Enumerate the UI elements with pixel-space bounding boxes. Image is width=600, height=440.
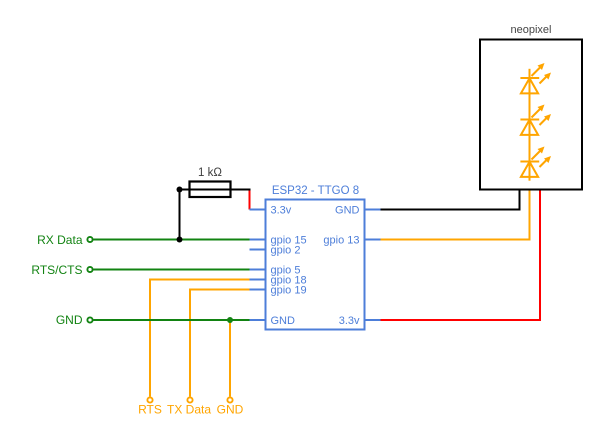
wire red 3.3v right to neopixel <box>381 190 541 321</box>
LED D2 <box>520 108 548 135</box>
junction dot RX line <box>177 237 183 243</box>
LED D2 arrowheads <box>538 105 545 112</box>
wire GND left green <box>93 319 249 321</box>
neopixel box <box>480 40 582 190</box>
pin stub gpio 13 right <box>365 239 381 241</box>
svg-text:GND: GND <box>335 205 360 217</box>
wire orange gpio13 to neopixel <box>381 189 530 240</box>
svg-text:TX Data: TX Data <box>167 403 211 417</box>
svg-text:3.3v: 3.3v <box>339 315 360 327</box>
LED D1 arrowheads <box>538 63 545 70</box>
junction dot resistor left <box>177 187 183 193</box>
terminal RTS/CTS <box>87 267 92 272</box>
terminal GND bottom <box>227 397 232 402</box>
pin stub gpio 2 <box>250 249 266 251</box>
wire black GND right <box>381 190 520 210</box>
svg-text:ESP32 - TTGO 8: ESP32 - TTGO 8 <box>272 185 359 197</box>
svg-text:neopixel: neopixel <box>511 24 552 36</box>
LED chain lead orange <box>529 69 531 181</box>
wire orange GND bottom <box>229 320 231 397</box>
pin stub 3.3v right <box>365 319 381 321</box>
pin stub GND left <box>250 319 266 321</box>
pin stub gpio 18 <box>250 279 266 281</box>
wire RX Data green <box>93 239 249 241</box>
svg-text:RTS: RTS <box>138 403 162 417</box>
pin stub gpio 5 <box>250 269 266 271</box>
resistor R1 1 kOhm <box>190 182 231 198</box>
terminal GND left <box>87 317 92 322</box>
ESP32 box U1 <box>266 200 365 330</box>
pin stub 3.3v left <box>250 209 266 211</box>
wire orange TX Data to gpio19 <box>190 290 250 397</box>
LED D1 <box>520 66 548 93</box>
svg-text:GND: GND <box>217 403 244 417</box>
LED D3 arrowheads <box>538 147 545 154</box>
pin stub gpio 19 <box>250 289 266 291</box>
terminal TX Data bottom <box>187 397 192 402</box>
wire orange RTS to gpio 18 <box>150 280 250 397</box>
pin stub gpio 15 <box>250 239 266 241</box>
svg-text:GND: GND <box>56 313 83 327</box>
junction dot GND green <box>227 317 233 323</box>
LED D3 <box>520 150 548 177</box>
wire junction vertical black <box>179 190 181 240</box>
svg-text:3.3v: 3.3v <box>271 205 292 217</box>
terminal RX Data <box>87 237 92 242</box>
svg-text:gpio 2: gpio 2 <box>271 245 301 257</box>
svg-text:GND: GND <box>271 315 296 327</box>
terminal RTS bottom <box>147 397 152 402</box>
svg-text:gpio 13: gpio 13 <box>323 235 359 247</box>
pin stub GND right <box>365 209 381 211</box>
wire resistor top black <box>180 189 251 191</box>
svg-text:RTS/CTS: RTS/CTS <box>31 263 82 277</box>
svg-text:gpio 19: gpio 19 <box>271 285 307 297</box>
wire RTS/CTS green <box>93 269 249 271</box>
svg-text:RX Data: RX Data <box>37 233 83 247</box>
wire red to 3.3v left <box>249 191 251 210</box>
svg-text:1 kΩ: 1 kΩ <box>198 167 222 179</box>
